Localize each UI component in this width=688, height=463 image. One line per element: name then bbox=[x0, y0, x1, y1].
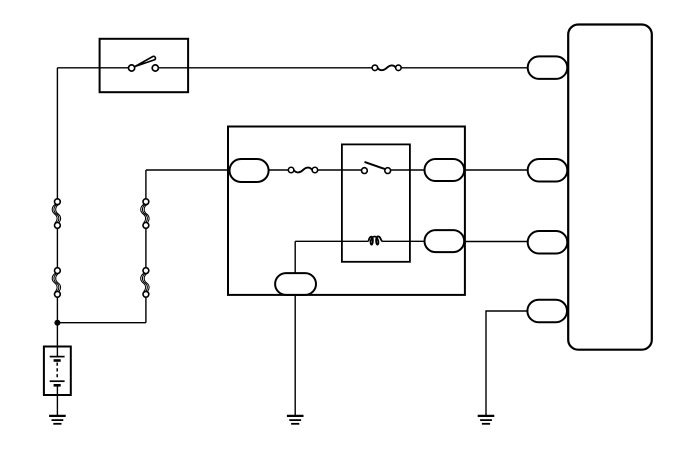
wire: coil to inner box right bbox=[383, 240, 425, 242]
fuse F1 bbox=[372, 65, 401, 71]
wire: fuse F1 to connector pill P1 bbox=[401, 67, 528, 69]
connector pill P5 (middle box left) bbox=[230, 159, 269, 182]
wire: second riser between coiled sections bbox=[145, 228, 147, 267]
battery B1 box bbox=[44, 347, 71, 396]
wire: pill P6 to big unit pill P2 bbox=[465, 169, 529, 171]
ignition switch box bbox=[100, 39, 189, 92]
coiled wire section W1a (left riser upper) bbox=[52, 199, 60, 229]
connector pill P7 (middle box right B) bbox=[425, 230, 465, 252]
wire: left vertical battery riser bbox=[56, 68, 58, 199]
wire: left riser to junction and battery bbox=[56, 297, 58, 356]
wire: second vertical riser top corner bbox=[145, 170, 147, 199]
wire: relay switch to middle box right pill A bbox=[391, 169, 425, 171]
wire: left riser between coiled sections bbox=[56, 228, 58, 267]
wire: bottom horizontal joining risers bbox=[57, 322, 145, 324]
wire: pill P7 to big unit pill P3 bbox=[465, 241, 529, 243]
relay contact switch bbox=[362, 162, 391, 174]
connector pill P2 bbox=[528, 159, 568, 182]
connector pill P1 (main unit top) bbox=[528, 56, 568, 79]
relay/control unit box bbox=[228, 127, 465, 295]
ground G2 (middle) bbox=[287, 416, 304, 424]
coiled wire section W1b (left riser lower) bbox=[52, 268, 60, 298]
ground G3 (right) bbox=[478, 416, 495, 424]
wire: pill P8 down to ground bbox=[294, 295, 296, 415]
wire: switch S1 to fuse F1 bbox=[158, 67, 372, 69]
connector pill P6 (middle box right A) bbox=[425, 159, 465, 181]
wire: battery to ground bbox=[56, 385, 58, 415]
wire: riser to middle box pill bbox=[146, 169, 230, 171]
main unit (large rounded box) bbox=[568, 25, 652, 350]
wire: battery feed horizontal top bbox=[57, 67, 128, 69]
wire: coil branch down to ground pill bbox=[294, 241, 296, 273]
ignition switch S1 bbox=[129, 56, 159, 71]
coiled wire section W2b (second riser lower) bbox=[141, 268, 149, 298]
ground G1 (battery) bbox=[49, 416, 66, 424]
connector pill P8 (middle box bottom) bbox=[275, 273, 316, 295]
relay inner box bbox=[342, 144, 410, 261]
coiled wire section W2a (second riser upper) bbox=[141, 199, 149, 229]
wire: fuse F2 to relay switch bbox=[318, 169, 362, 171]
wire: pill P5 to fuse F2 bbox=[269, 169, 289, 171]
connector pill P3 bbox=[528, 231, 568, 254]
fuse F2 bbox=[288, 167, 317, 173]
junction dot at battery node bbox=[54, 320, 60, 326]
wire: second riser lower section bbox=[145, 297, 147, 322]
battery B1 plates bbox=[50, 357, 65, 386]
connector pill P4 bbox=[527, 300, 567, 323]
relay coil L1 bbox=[369, 236, 383, 244]
wire: coil branch horizontal bbox=[295, 240, 368, 242]
wire: pill P4 to ground drop bbox=[486, 311, 527, 415]
